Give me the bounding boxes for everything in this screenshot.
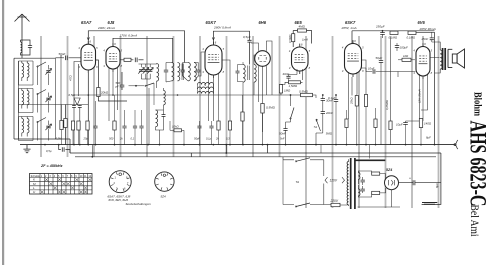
capacitor 5nF [93,126,97,128]
resistor 500 [113,121,116,130]
svg-text:1mA: 1mA [302,37,308,41]
resistor 140 cathode [419,119,422,128]
capacitor 50nF [283,129,287,131]
wave trap capacitor [28,46,32,48]
svg-text:20kΩ: 20kΩ [100,91,109,95]
svg-text:+: + [409,177,411,181]
page left edge line [2,0,4,265]
osc trimmer B [144,70,148,72]
capacitor C-bus 0,1uF on heater bus [62,147,64,152]
resistor 4M feed [293,31,297,34]
svg-text:1,5MΩ: 1,5MΩ [289,84,298,88]
svg-text:0,5MΩ: 0,5MΩ [299,89,309,93]
OPT core [443,48,446,70]
svg-text:7A: 7A [314,125,318,129]
chassis bus wire [20,144,455,146]
osc coil 3 with padder [156,110,158,127]
capacitor 30nF [321,99,325,101]
grid resistor wire [381,72,416,78]
resistor R-ant 0,2M [64,119,67,128]
svg-text:0,5µ: 0,5µ [46,149,52,153]
resistor vol 0,5M [261,104,264,114]
tube 6J5 [106,47,120,70]
capacitor 0,5uF [247,40,251,42]
resistor row b1 [345,119,348,128]
svg-text:Bel Ami: Bel Ami [468,205,480,237]
junction dots on bus [44,144,435,146]
arrow 6SK7 plate [212,37,214,40]
IFT1 wiring [166,52,205,82]
svg-text:500: 500 [109,137,114,141]
5Z4 internals [389,180,395,185]
capacitor 50pF-2 [135,58,137,63]
capacitor 50pF row [197,126,201,128]
svg-text:10nF: 10nF [368,66,375,70]
svg-text:25nF: 25nF [421,37,429,41]
psu feed riser [321,145,369,159]
wire riser bus 2 [267,145,269,153]
band coil pair L3 [22,119,24,133]
svg-text:120V: 120V [330,179,338,183]
tube 6SA7 [81,44,96,70]
osc coil triangle [74,98,80,105]
tube 6V6 [416,47,430,77]
resistor 1,5M [289,81,301,84]
svg-text:47Ω: 47Ω [69,75,73,81]
resistor hum a [372,172,380,175]
capacitor [122,126,126,128]
svg-text:0,5MΩ: 0,5MΩ [288,34,292,43]
svg-text:6SK7: 6SK7 [345,20,356,25]
svg-text:8µF: 8µF [435,183,439,188]
wires section L2 [19,89,49,113]
cathode wires 6SA7 [87,73,89,145]
heater bus wire 1 [70,152,441,154]
mains switch 1 [283,157,294,160]
capacitor 8uF out [413,180,415,185]
svg-text:6SA7: 6SA7 [81,20,92,25]
mains switch 2 [296,203,310,207]
resistor 20k [97,88,100,97]
6SK7 pin wires [209,60,231,121]
AVC line [74,94,301,96]
svg-text:25p: 25p [83,137,89,141]
svg-text:8µF: 8µF [426,136,431,140]
capacitor 20nF [321,112,325,114]
resistor 600 [124,58,131,61]
volume switch [291,108,295,119]
tube 5Z4 [385,176,399,190]
osc coil 2 [164,91,166,105]
svg-text:170V, 6,0mA: 170V, 6,0mA [120,34,138,38]
svg-text:25kΩ: 25kΩ [350,96,354,105]
svg-text:0,5µF: 0,5µF [243,35,251,39]
wire g2 down [96,60,99,88]
6E5 bottom components [289,69,303,80]
speaker frame [448,49,452,67]
resistor k1 [355,96,358,107]
resistor [71,121,74,130]
IFT1 tuning caps [164,70,168,72]
svg-text:0,1µF: 0,1µF [328,96,336,100]
band coil pair L2 [22,91,24,105]
antenna [15,14,30,38]
resistor 10k horizontal [174,129,182,132]
resistor [60,121,63,130]
wire ift sec [198,85,214,94]
svg-text:pF: pF [115,84,120,88]
svg-text:0,1: 0,1 [131,137,135,141]
filter capacitor a [361,180,365,182]
capacitor 40nF [286,76,290,78]
svg-text:AHS 6823-C: AHS 6823-C [466,121,491,207]
svg-text:10µF: 10µF [396,123,403,127]
capacitor 0,1uF row [209,126,213,128]
tube 6J5 pin wires [109,68,118,121]
chassis bar psu [422,203,437,205]
capacitor 0,1uF [133,126,137,128]
6H6 top wires [251,41,272,95]
svg-text:TA: TA [296,180,300,184]
capacitor 100uF [395,46,399,48]
capacitor 500pF [120,85,125,87]
band coil pair L1 [22,63,24,77]
osc trimmer C [148,70,152,72]
band switch table [30,174,93,195]
tube 6SK7-2 [345,44,362,75]
resistor k2 [364,95,367,107]
capacitor osc 2 [78,106,82,108]
osc coil 1 [157,64,159,82]
transformer core [351,158,355,209]
capacitor 0,1uF k [334,100,338,102]
band switch L3 [38,118,47,123]
resistor [77,121,80,130]
wire junction riser [190,153,192,157]
grid cap 50pF [65,56,67,61]
trimmer capacitor L1 [46,71,50,73]
resistor hum b [372,191,380,194]
wire riser bus [225,145,227,153]
capacitor [139,126,143,128]
transformer HT secondary b [358,189,360,196]
svg-text:280V 0,8mA: 280V 0,8mA [213,26,231,30]
capacitor 10uF cathode [403,123,408,125]
svg-text:250µF: 250µF [375,24,385,28]
resistor 0,3M [228,121,231,130]
svg-text:ZF = 458kHz: ZF = 458kHz [40,164,63,168]
svg-text:10kΩ: 10kΩ [172,125,180,129]
trimmer capacitor L2 [46,98,50,100]
6H6 internal electrodes [259,56,266,62]
resistor 0,5M avc [301,93,313,96]
svg-text:6H6: 6H6 [259,20,267,25]
6V6 pin wires [420,74,428,121]
wires section L1 [19,61,49,85]
resistor [86,121,89,130]
switch row wire [19,104,89,106]
capacitor 25nF top [430,38,434,40]
svg-text:285V, 1mA: 285V, 1mA [341,26,357,30]
svg-text:5MΩ: 5MΩ [326,132,333,136]
osc trimmer A [139,70,143,72]
speaker cone [457,49,464,68]
svg-text:205V 46mA: 205V 46mA [419,27,436,31]
transformer primary winding [347,162,349,205]
IFT coupling squiggle [198,83,214,85]
svg-text:6J8: 6J8 [108,20,116,25]
svg-text:6SK7: 6SK7 [206,20,217,25]
svg-text:0,1µ: 0,1µ [206,137,212,141]
IF transformer 2 coils [243,65,245,83]
wave trap coil [21,42,22,53]
resistor 0,1M b [408,31,416,34]
svg-text:50pF: 50pF [194,137,200,141]
svg-text:6V6: 6V6 [418,20,426,25]
osc band switch [146,83,155,86]
5Z4 output wire [399,182,441,184]
osc grid components [74,62,81,97]
svg-text:220V: 220V [330,199,339,203]
coil bottom wire [14,139,70,153]
capacitor 50uF screen [379,61,383,63]
svg-text:0,3: 0,3 [226,137,230,141]
capacitor coupling [373,69,375,74]
resistor 0,25M grid [389,121,392,130]
svg-text:50pF: 50pF [59,52,66,56]
IFT1 core lines [182,64,184,81]
svg-text:0,1MΩ: 0,1MΩ [389,36,398,40]
filter capacitor b [361,189,365,191]
IFT2 core [248,66,250,81]
svg-text:50nF: 50nF [279,132,286,136]
speaker voice coil box [452,54,457,63]
band switch L1 [38,62,47,67]
front-end top wire [14,57,56,59]
svg-text:Blohm: Blohm [472,92,483,117]
resistor 2k [217,121,220,130]
svg-text:50µF: 50µF [376,56,383,60]
svg-text:0,2M: 0,2M [56,137,63,141]
transformer HT secondary a [358,173,360,180]
trimmer capacitor L3 [46,126,50,128]
svg-text:20nF: 20nF [325,111,333,115]
svg-text:5Z4: 5Z4 [386,168,392,172]
heater return wire [358,190,401,207]
resistor 0,1M det [241,112,244,121]
resistor 1k [402,58,411,61]
6V6 plate wire to OPT [423,36,440,58]
tone pot [316,119,321,131]
svg-text:200V, 24mA: 200V, 24mA [97,26,115,30]
connector right end of bus [455,140,458,149]
svg-text:100µF: 100µF [400,45,408,49]
wire bus2 to psu rail [422,153,441,204]
wire left column joins [19,58,62,139]
svg-text:0,25MΩ: 0,25MΩ [385,99,389,110]
svg-text:0,1MΩ: 0,1MΩ [407,36,416,40]
resistor row b2 [374,119,377,128]
socket diagram rectifier [155,172,174,191]
wires section L3 [19,117,49,141]
ground [23,145,30,153]
resistor 0,5M vertical [292,34,295,42]
svg-text:4MΩ: 4MΩ [299,25,306,29]
svg-text:5Z4: 5Z4 [161,194,167,198]
svg-text:5nF: 5nF [280,137,285,141]
socket diagram octal [109,171,131,193]
svg-text:1MΩ: 1MΩ [284,89,291,93]
tube 6SK7 [205,45,222,75]
resistor 1M [279,85,282,94]
paper fold crease lines [41,36,439,208]
6H6 bottom wires [258,66,266,132]
capacitor osc 1 [72,106,76,108]
padder capacitor [162,115,166,117]
B+ top line [352,30,435,32]
svg-text:Schalter: Schalter [31,174,41,178]
band switch L2 [38,90,47,95]
svg-text:40nF: 40nF [283,72,290,76]
osc coil wiring [139,64,157,145]
left vertical wire [13,58,15,139]
IFT2 caps [236,71,240,73]
resistor 0,1M a [390,31,398,34]
arrow on plate wire [87,37,89,40]
capacitor 250uF [380,33,385,35]
tube 6E5 [292,47,309,71]
tube 6H6 [255,51,271,67]
IFT2 wiring [254,55,258,95]
core top bar [355,159,385,161]
heater bus wire 2 [75,156,436,158]
IF transformer 1 coils [172,63,174,81]
svg-text:140Ω: 140Ω [424,122,432,126]
svg-text:0,5MΩ: 0,5MΩ [266,106,276,110]
svg-text:1kΩ: 1kΩ [403,54,409,58]
OPT primary winding [440,50,442,69]
6SK7-2 pin wires [349,60,367,119]
svg-text:Sockelschaltungen: Sockelschaltungen [126,202,152,206]
secondary wires [358,171,371,197]
voltage selector bracket 120V [325,177,345,183]
